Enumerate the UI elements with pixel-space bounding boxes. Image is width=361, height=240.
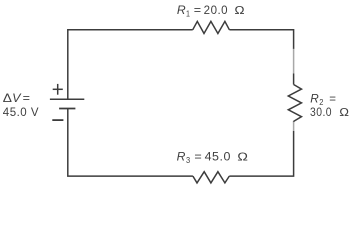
wire right lower lead (light) — [293, 122, 295, 131]
battery V1 short plate — [59, 108, 75, 110]
svg-text:R1=20.0Ω: R1=20.0Ω — [177, 5, 245, 18]
wire right lower segment — [229, 131, 293, 176]
svg-text:30.0Ω: 30.0Ω — [310, 107, 350, 119]
wire right upper lead (light) — [293, 49, 295, 74]
battery plus sign — [53, 84, 63, 95]
resistor R3 — [193, 172, 229, 183]
wire right-bottom segment — [293, 120, 295, 123]
battery minus sign — [52, 119, 63, 121]
wire right upper segment 2 — [293, 74, 295, 85]
battery V1 long plate — [50, 98, 84, 100]
resistor R2 — [288, 85, 301, 122]
wire bottom-left segment — [68, 109, 193, 177]
wire top-left segment — [68, 30, 193, 99]
wire top-right segment — [229, 30, 293, 49]
svg-text:ΔV=: ΔV= — [3, 93, 31, 105]
svg-text:45.0 V: 45.0 V — [3, 107, 39, 119]
svg-text:R3=45.0Ω: R3=45.0Ω — [177, 151, 249, 165]
resistor R1 — [193, 21, 230, 33]
svg-text:R2=: R2= — [310, 94, 336, 108]
